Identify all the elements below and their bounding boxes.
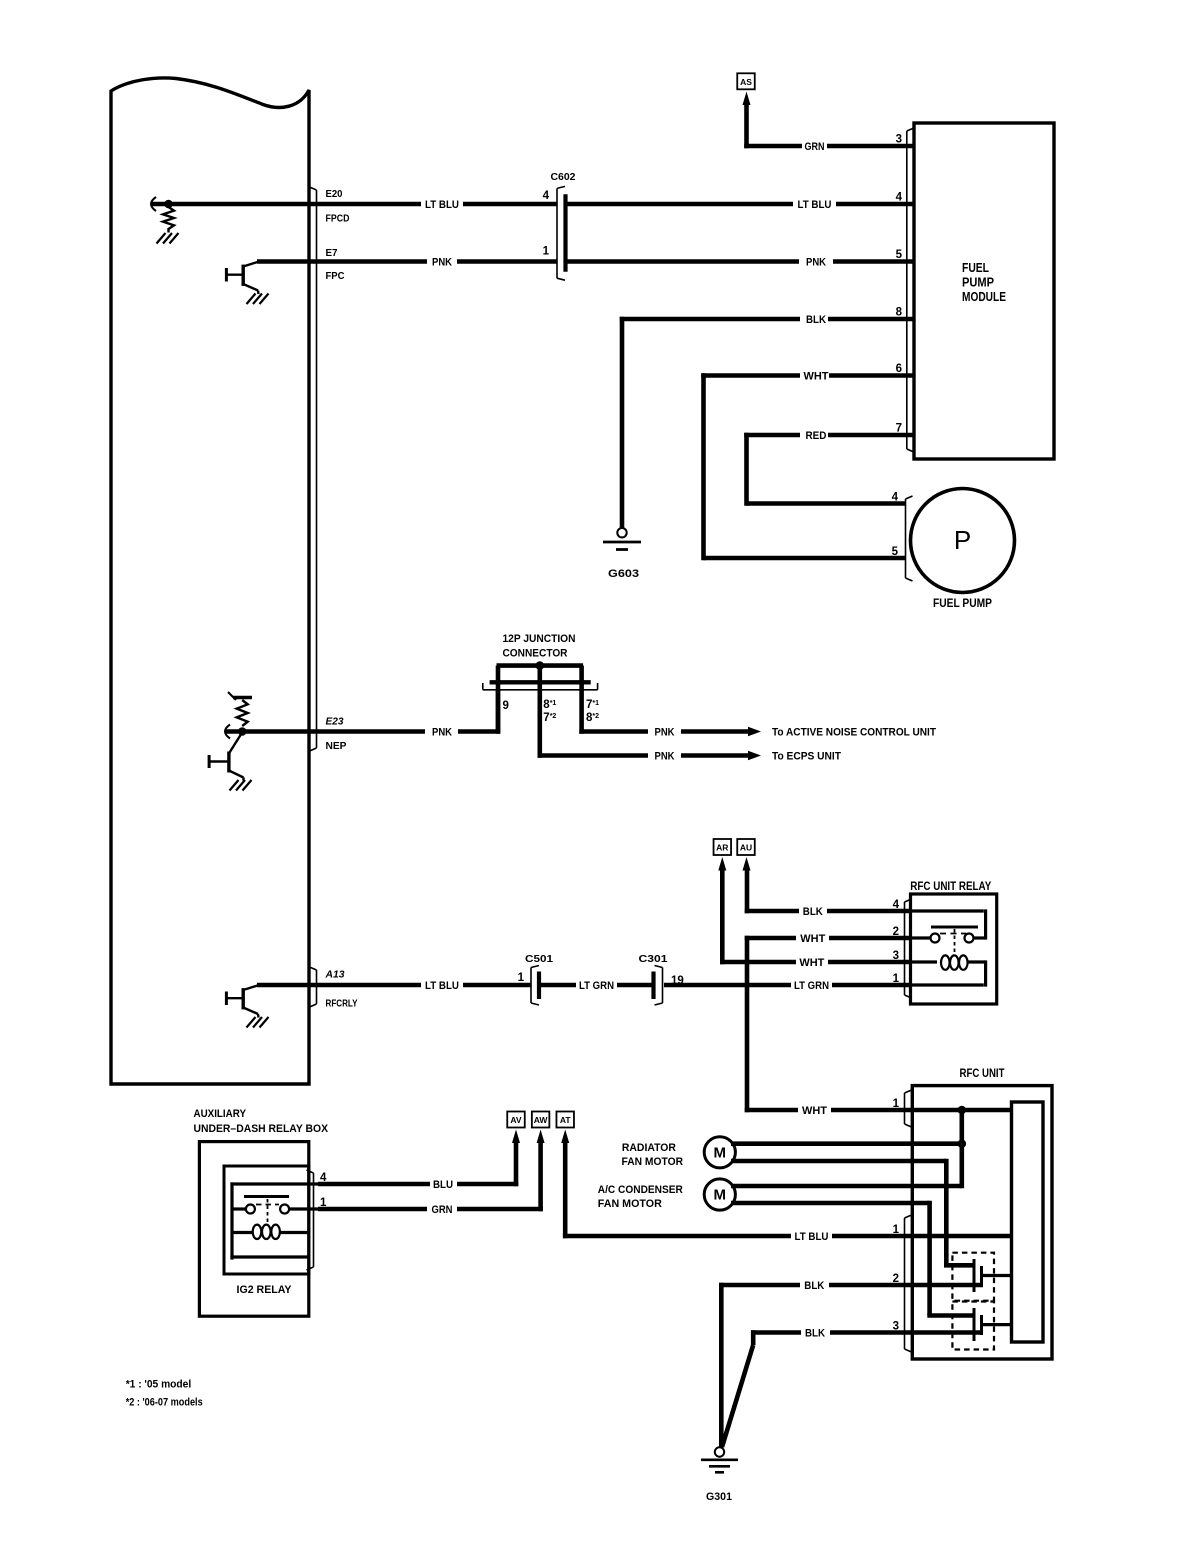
svg-text:M: M (714, 1145, 727, 1162)
boxed destination AV (507, 1112, 525, 1128)
wire BLU IG2 pin 4 to AV (318, 1182, 430, 1187)
junction connector pin 8/7 drop (to ECPS) (537, 666, 542, 758)
svg-text:8: 8 (896, 307, 903, 319)
svg-text:AW: AW (534, 1115, 549, 1125)
svg-text:*2 : '06-07 models: *2 : '06-07 models (126, 1397, 203, 1409)
wire PNK C602 to fuel pump module pin 5 (567, 259, 799, 264)
wire a/c fan motor bottom (731, 1201, 930, 1206)
arrow to ECPS unit (681, 753, 750, 758)
svg-text:MODULE: MODULE (962, 289, 1006, 304)
transistor at E7 (driver) (225, 268, 228, 282)
arrow up to AR (718, 857, 726, 871)
fuel pump module U1 (914, 123, 1054, 459)
junction connector pin 9 drop (496, 690, 501, 732)
svg-text:To ACTIVE NOISE CONTROL UNIT: To ACTIVE NOISE CONTROL UNIT (772, 727, 936, 739)
svg-text:PNK: PNK (655, 727, 675, 739)
svg-text:E20: E20 (326, 188, 343, 200)
ground G603 (617, 528, 626, 537)
wire BLK relay pin 4 to AU (745, 869, 750, 914)
svg-text:FUEL PUMP: FUEL PUMP (933, 596, 992, 610)
IG2 relay contact (288, 1207, 318, 1210)
svg-text:LT BLU: LT BLU (798, 199, 832, 211)
svg-text:RFC UNIT RELAY: RFC UNIT RELAY (910, 881, 991, 893)
svg-text:C501: C501 (525, 953, 553, 965)
wire WHT to RFC unit pin 1 (745, 1108, 798, 1113)
IG2 relay inner box (224, 1166, 309, 1274)
chassis ground below E23 transistor (230, 780, 239, 791)
arrow up to AW (537, 1130, 545, 1144)
resistor pull-down at E20 (163, 207, 174, 229)
RFC unit output stage (inner box) (1012, 1102, 1044, 1342)
wire E20 to C602 (463, 202, 557, 207)
arrow to active noise control unit (681, 729, 750, 734)
svg-text:1: 1 (893, 973, 900, 985)
wire LT BLU C602 to fuel pump module pin 4 (567, 202, 793, 207)
svg-text:FPCD: FPCD (326, 213, 350, 225)
connector bracket at IG2 relay (307, 1170, 314, 1270)
svg-text:FAN MOTOR: FAN MOTOR (622, 1156, 684, 1168)
wire E23 NEP (PNK) with curl (225, 725, 230, 739)
svg-text:AS: AS (740, 77, 752, 87)
svg-text:WHT: WHT (804, 371, 829, 383)
svg-text:PUMP: PUMP (962, 275, 994, 290)
wire radiator fan motor top (731, 1141, 962, 1146)
arrow up to AT (561, 1130, 569, 1144)
svg-text:4: 4 (893, 899, 900, 911)
chassis ground below E7 transistor (247, 294, 256, 305)
svg-text:CONNECTOR: CONNECTOR (503, 648, 568, 660)
svg-text:LT BLU: LT BLU (425, 980, 459, 992)
connector bracket at fuel pump (906, 496, 913, 581)
svg-text:5: 5 (892, 546, 899, 558)
svg-text:BLK: BLK (805, 1328, 825, 1340)
wire E7 FPC (PNK) to C602 (257, 259, 427, 264)
connector bracket at RFC unit pins 1-3 (905, 1215, 912, 1352)
svg-text:*1 : '05 model: *1 : '05 model (126, 1379, 192, 1391)
fuel pump motor P (911, 489, 1015, 593)
boxed destination AW (532, 1112, 550, 1128)
svg-text:1: 1 (543, 246, 550, 258)
wire WHT module pin 6 to fuel pump pin 5 (701, 373, 706, 560)
wire BLK to fuel pump module pin 8 (620, 317, 625, 528)
wire a/c fan motor top (731, 1184, 962, 1189)
wire WHT relay pin 3 to AR (720, 869, 725, 965)
arrow up to AS (743, 92, 751, 106)
a/c condenser fan motor M2 (704, 1179, 735, 1210)
svg-text:2: 2 (893, 1273, 899, 1285)
svg-text:4: 4 (892, 492, 899, 504)
connector bracket at RFC unit relay (905, 899, 912, 998)
relay contact (911, 936, 931, 939)
svg-text:3: 3 (893, 1321, 899, 1333)
junction node at E20 pull-down (164, 200, 173, 209)
ground G301 (715, 1447, 724, 1456)
svg-text:UNDER–DASH RELAY BOX: UNDER–DASH RELAY BOX (194, 1123, 329, 1135)
boxed destination AR (714, 839, 732, 855)
svg-text:C602: C602 (551, 171, 576, 183)
connector C501 (531, 966, 539, 1006)
RFC unit box (912, 1086, 1052, 1359)
fan control transistor Q2 (dashed) (952, 1302, 994, 1350)
svg-text:5: 5 (896, 249, 903, 261)
wire BLK RFC unit pin 3 to G301 (751, 1330, 756, 1345)
auxiliary under-dash relay box (199, 1142, 308, 1317)
svg-text:E7: E7 (326, 247, 338, 259)
boxed destination AS (737, 73, 755, 89)
svg-text:To ECPS UNIT: To ECPS UNIT (772, 751, 841, 763)
svg-text:AUXILIARY: AUXILIARY (194, 1108, 247, 1120)
svg-text:4: 4 (543, 190, 550, 202)
connector C602 (557, 186, 565, 280)
powertrain control module (left box with torn top) (111, 78, 309, 1084)
svg-text:P: P (954, 525, 971, 555)
connector strip for pins E20/E7/E23 (310, 187, 317, 751)
svg-text:AU: AU (740, 843, 752, 853)
chassis ground below A13 transistor (247, 1017, 256, 1028)
svg-text:C301: C301 (639, 953, 668, 965)
svg-text:1: 1 (893, 1098, 900, 1110)
fan control transistor Q1 (dashed) (952, 1253, 994, 1301)
svg-text:E23: E23 (326, 716, 344, 728)
svg-text:FPC: FPC (326, 270, 345, 282)
svg-text:4: 4 (896, 192, 903, 204)
connector bracket at fuel pump module (907, 128, 914, 452)
IG2 relay coil (253, 1225, 262, 1239)
svg-text:9: 9 (503, 700, 509, 712)
wire LT BLU from AT to RFC unit pin 1 (563, 1139, 568, 1238)
svg-text:1: 1 (893, 1224, 900, 1236)
RFC unit relay box (911, 894, 997, 1004)
svg-text:M: M (714, 1187, 727, 1204)
svg-text:7: 7 (896, 423, 902, 435)
svg-text:LT BLU: LT BLU (425, 199, 459, 211)
svg-text:PNK: PNK (806, 257, 826, 269)
svg-text:RED: RED (806, 430, 827, 442)
svg-text:NEP: NEP (326, 740, 347, 752)
svg-text:RFC UNIT: RFC UNIT (960, 1068, 1005, 1080)
connector bracket at pin A13 (310, 967, 317, 1007)
svg-text:1: 1 (518, 972, 525, 984)
junction connector pin 7/8 drop (to active noise) (579, 666, 584, 734)
svg-text:LT GRN: LT GRN (794, 980, 829, 992)
svg-text:WHT: WHT (799, 957, 824, 969)
12P junction connector body (490, 680, 591, 684)
svg-text:GRN: GRN (805, 141, 825, 153)
svg-text:BLK: BLK (806, 314, 826, 326)
arrow up to AV (512, 1130, 520, 1144)
svg-text:6: 6 (896, 363, 902, 375)
wire E23 to junction connector pin 9 (458, 729, 500, 734)
svg-text:BLK: BLK (804, 1280, 824, 1292)
wire WHT relay pin 2 down to RFC unit (745, 936, 750, 1113)
svg-text:PNK: PNK (432, 257, 452, 269)
svg-text:FUEL: FUEL (962, 260, 989, 275)
boxed destination AU (737, 839, 755, 855)
RFC unit internal node from pin 1 (912, 1108, 1011, 1113)
svg-text:3: 3 (893, 950, 899, 962)
svg-text:2: 2 (893, 926, 899, 938)
wire RED module pin 7 to fuel pump pin 4 (744, 433, 749, 506)
transistor at A13 (driver) (225, 992, 228, 1006)
radiator fan motor M1 (704, 1137, 735, 1168)
svg-text:RADIATOR: RADIATOR (622, 1142, 676, 1154)
svg-text:G603: G603 (608, 568, 639, 580)
svg-text:FAN MOTOR: FAN MOTOR (598, 1198, 662, 1210)
svg-text:A/C CONDENSER: A/C CONDENSER (598, 1184, 683, 1196)
svg-text:LT GRN: LT GRN (579, 980, 614, 992)
svg-text:WHT: WHT (800, 933, 825, 945)
svg-text:PNK: PNK (655, 751, 675, 763)
power tap with pull-up resistor at E23 (233, 696, 252, 699)
arrow up to AU (743, 857, 751, 871)
wire radiator fan motor bottom (731, 1159, 946, 1164)
svg-text:LT BLU: LT BLU (795, 1231, 829, 1243)
svg-text:12P JUNCTION: 12P JUNCTION (503, 633, 576, 645)
svg-text:IG2 RELAY: IG2 RELAY (237, 1284, 293, 1296)
wire GRN to fuel pump module pin 3 (744, 103, 749, 148)
12P junction connector internal bus (497, 663, 584, 668)
wire A13 (LT BLU) to C501 (257, 983, 421, 988)
svg-text:A13: A13 (325, 969, 345, 981)
junction node at E23 (238, 727, 247, 736)
svg-text:AV: AV (510, 1115, 522, 1125)
svg-text:BLK: BLK (803, 906, 823, 918)
svg-text:G301: G301 (706, 1491, 732, 1503)
wire E20 FPCD (LT BLU) left stub with curl (151, 197, 156, 211)
svg-text:RFCRLY: RFCRLY (326, 998, 358, 1010)
svg-text:WHT: WHT (802, 1105, 827, 1117)
boxed destination AT (556, 1112, 574, 1128)
svg-text:BLU: BLU (433, 1179, 453, 1191)
svg-text:3: 3 (896, 134, 902, 146)
svg-text:GRN: GRN (432, 1204, 453, 1216)
wire BLK RFC unit pin 2 to G301 (719, 1283, 724, 1448)
wire GRN IG2 pin 1 to AW (318, 1207, 427, 1212)
svg-text:AR: AR (716, 843, 728, 853)
junction with radiator fan feed (958, 1139, 967, 1148)
relay coil (911, 960, 938, 963)
connector bracket at RFC unit pin 1 (top) (905, 1090, 912, 1127)
connector C301 (655, 966, 663, 1006)
svg-text:PNK: PNK (432, 727, 452, 739)
wire LT GRN C501 to C301 (541, 983, 576, 988)
chassis ground below E20 resistor (157, 233, 166, 244)
svg-text:AT: AT (560, 1115, 572, 1125)
transistor at E23 (driver) (208, 755, 211, 768)
wire LT GRN C301 to RFC unit relay pin 1 (664, 983, 791, 988)
